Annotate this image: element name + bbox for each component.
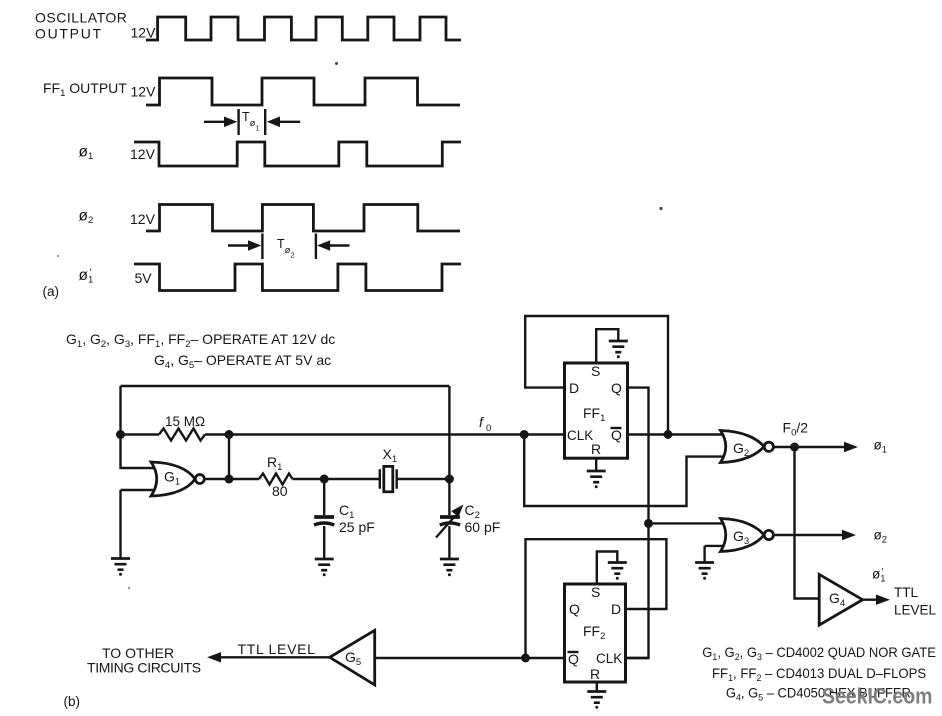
svg-text:Q: Q [569, 601, 580, 617]
svg-text:Q: Q [611, 427, 622, 443]
svg-text:0: 0 [486, 423, 491, 434]
svg-text:S: S [591, 363, 600, 379]
svg-text:80: 80 [272, 483, 288, 499]
svg-text:25 pF: 25 pF [339, 519, 375, 535]
svg-text:Q: Q [568, 651, 579, 667]
svg-text:D: D [569, 380, 579, 396]
svg-text:S: S [591, 584, 600, 600]
svg-text:12V: 12V [131, 84, 157, 100]
svg-text:5V: 5V [135, 270, 153, 286]
svg-text:(b): (b) [64, 694, 81, 709]
svg-text:CLK: CLK [596, 651, 622, 666]
svg-text:R: R [591, 441, 601, 457]
svg-text:TTL: TTL [894, 585, 918, 600]
svg-text:′: ′ [90, 268, 92, 279]
svg-text:(a): (a) [43, 284, 60, 299]
svg-text:LEVEL: LEVEL [894, 603, 937, 618]
svg-text:D: D [611, 601, 621, 617]
svg-text:OUTPUT: OUTPUT [35, 26, 103, 42]
svg-text:R: R [590, 666, 600, 682]
svg-text:12V: 12V [131, 25, 157, 41]
svg-text:CLK: CLK [567, 428, 593, 443]
svg-text:TIMING CIRCUITS: TIMING CIRCUITS [87, 660, 201, 676]
svg-text:OSCILLATOR: OSCILLATOR [35, 10, 127, 26]
svg-text:12V: 12V [130, 146, 156, 162]
svg-text:15 MΩ: 15 MΩ [165, 414, 205, 429]
svg-text:TTL LEVEL: TTL LEVEL [238, 641, 316, 657]
svg-text:12V: 12V [130, 211, 156, 227]
svg-text:Q: Q [611, 380, 622, 396]
svg-text:′: ′ [882, 567, 884, 578]
svg-text:60 pF: 60 pF [465, 519, 501, 535]
svg-text:SeekIC.com: SeekIC.com [822, 684, 933, 709]
